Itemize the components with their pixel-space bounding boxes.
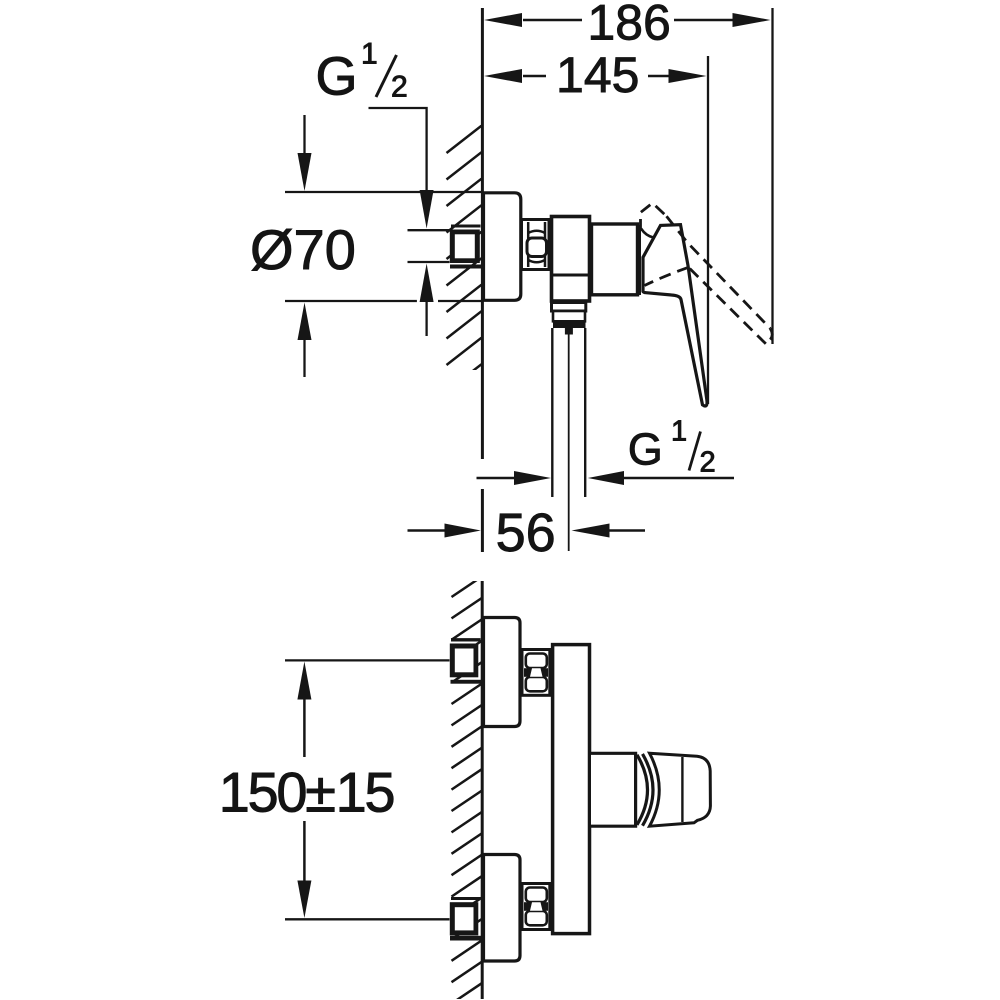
- wall face line (upper view): [481, 8, 484, 552]
- outlet pipe walls: [552, 328, 585, 497]
- outlet nub: [565, 328, 573, 335]
- text G 1/2 (outlet): [630, 421, 714, 472]
- line above upper stub: [451, 638, 481, 641]
- arrow up to stub bottom: [420, 264, 434, 337]
- escutcheon flange (side view): [484, 193, 521, 300]
- mixer body: [592, 224, 638, 295]
- handle knob body: [650, 753, 711, 826]
- line above wall stub: [451, 225, 481, 228]
- wall stub (G 1/2 nipple): [450, 230, 480, 264]
- lower escutcheon flange: [484, 855, 521, 962]
- upper escutcheon flange (front-side view): [484, 618, 521, 727]
- dimension G 1/2 (outlet): [477, 471, 735, 485]
- lever handle (solid position): [643, 225, 707, 406]
- lower wall stub: [450, 902, 479, 935]
- text 150±15: [223, 772, 393, 812]
- text 56: [498, 513, 554, 551]
- wall face line (lower view): [481, 581, 484, 999]
- dimension 150±15 extension lines: [285, 660, 450, 919]
- outlet step 1: [552, 303, 586, 312]
- outlet dark band: [553, 321, 586, 328]
- dimension Ø70 extension lines: [285, 192, 481, 301]
- text 186: [591, 5, 668, 40]
- knob inner line: [681, 757, 683, 822]
- bar below wall stub: [450, 265, 481, 269]
- upper wall stub: [450, 644, 479, 678]
- outlet centerline: [568, 335, 570, 552]
- bar below upper stub: [451, 680, 482, 684]
- slash of outlet G 1/2: [689, 432, 701, 471]
- 150±15 arrow down: [297, 821, 311, 918]
- text G 1/2 (wall connection): [318, 43, 406, 97]
- body plate (side view): [553, 645, 590, 934]
- knob grip arcs: [637, 754, 653, 826]
- lever collar arc: [641, 229, 654, 238]
- leader line G 1/2 to stub: [369, 108, 434, 229]
- stub extension lines: [408, 230, 450, 262]
- 150±15 arrow up: [297, 662, 311, 758]
- lower union nut (front view): [522, 884, 550, 930]
- text 145: [560, 58, 638, 93]
- dimension 145: [484, 56, 708, 404]
- bar below lower stub: [450, 936, 482, 941]
- outlet step 2: [553, 311, 585, 321]
- wall hatching (upper view): [447, 126, 482, 392]
- cartridge housing: [552, 217, 590, 302]
- upper union nut (front view): [522, 650, 550, 696]
- text Ø70: [252, 229, 354, 271]
- handle neck: [591, 753, 636, 826]
- body/handle divider (thick): [636, 225, 641, 295]
- slash of G 1/2: [376, 55, 397, 97]
- Ø70 arrow down: [298, 115, 312, 191]
- line above lower stub: [451, 897, 481, 900]
- Ø70 arrow up: [298, 303, 312, 378]
- union nut (side view): [522, 220, 550, 270]
- wall hatching (lower view): [452, 577, 482, 1000]
- dimension 56: [408, 524, 646, 538]
- lever handle (dashed raised position): [641, 203, 773, 344]
- dimension 186: [484, 8, 773, 344]
